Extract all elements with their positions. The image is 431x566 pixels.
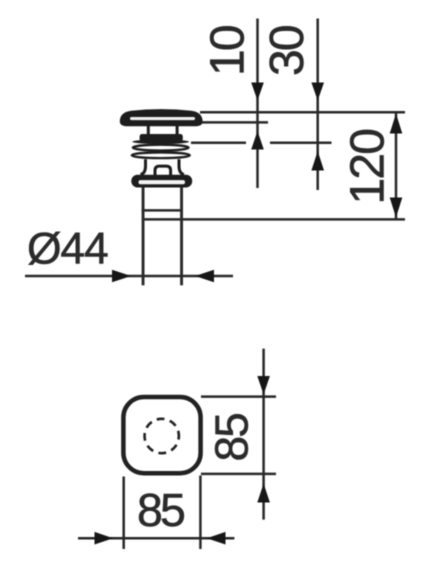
svg-text:85: 85 xyxy=(137,484,184,536)
svg-text:120: 120 xyxy=(342,130,395,205)
svg-text:85: 85 xyxy=(206,414,258,462)
svg-text:10: 10 xyxy=(202,26,255,76)
svg-text:30: 30 xyxy=(261,26,314,76)
svg-text:Ø44: Ø44 xyxy=(27,225,108,274)
